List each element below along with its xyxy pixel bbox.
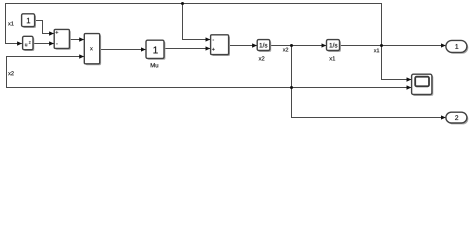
plus sign (Sum1) bbox=[55, 31, 58, 34]
signal label x1 bbox=[374, 48, 379, 52]
outport 1 bbox=[446, 40, 468, 53]
wire Mu to sum2 + bbox=[164, 49, 210, 50]
label Mu (Gain) bbox=[151, 63, 158, 67]
text 1/s (Integrator x2) bbox=[260, 43, 268, 48]
wire constant 1 to sum1 + bbox=[35, 21, 54, 34]
x sign (Product) bbox=[90, 47, 93, 50]
wire sum1 to product in1 bbox=[70, 39, 84, 41]
text 1/s (Integrator x1) bbox=[330, 43, 338, 48]
product block bbox=[84, 34, 101, 66]
wire integrator x2 to integrator x1 bbox=[270, 45, 326, 47]
wire u2 to sum1 - bbox=[33, 43, 54, 45]
wire integrator x1 to out1 bbox=[340, 45, 446, 47]
superscript 2 (Square fn) bbox=[29, 41, 31, 44]
wire x2 bottom junction down to out2 bbox=[292, 88, 446, 118]
port number 2 (Out2) bbox=[455, 115, 458, 120]
value 1 (Gain Mu) bbox=[153, 47, 157, 54]
value 1 (Constant) bbox=[27, 18, 30, 23]
math function u^2 bbox=[23, 36, 35, 51]
port number 1 (Out1) bbox=[455, 44, 458, 49]
junction dot top wire bbox=[181, 2, 184, 5]
constant block 1 bbox=[22, 14, 36, 28]
letter u (Square fn) bbox=[25, 44, 27, 47]
integrator x1 block bbox=[327, 40, 341, 52]
wire x2 junction down, feedback left, to product in2 bbox=[7, 46, 292, 88]
integrator x2 block bbox=[257, 40, 271, 52]
label x1 (Integrator x1) bbox=[329, 56, 335, 60]
gain block Mu bbox=[146, 40, 165, 60]
sum1 block bbox=[54, 29, 71, 49]
minus sign (Sum2) bbox=[213, 39, 214, 41]
junction dot x2 bbox=[290, 44, 293, 47]
plus sign (Sum2) bbox=[212, 48, 215, 51]
scope screen bbox=[415, 77, 429, 87]
label x1 (top-left wire) bbox=[8, 22, 14, 26]
sum2 block bbox=[211, 35, 230, 56]
junction dot x1 bbox=[380, 44, 383, 47]
label x2 (bottom-left wire) bbox=[8, 71, 14, 75]
wire x1 junction down to scope in1 bbox=[382, 46, 412, 80]
wire top junction down to sum2 - bbox=[183, 4, 211, 40]
scope block bbox=[412, 74, 434, 96]
wire x1 feedback top: junction to u2 input bbox=[6, 4, 382, 46]
signal label x2 bbox=[283, 48, 288, 52]
junction dot x2 bottom bbox=[290, 86, 293, 89]
wire sum2 to integrator x2 bbox=[229, 45, 257, 47]
minus sign (Sum1) bbox=[56, 43, 57, 45]
outport 2 bbox=[446, 112, 468, 124]
wire x2 bottom junction to scope in2 bbox=[292, 87, 412, 89]
wire product to gain Mu bbox=[100, 49, 146, 51]
label x2 (Integrator x2) bbox=[259, 56, 265, 60]
